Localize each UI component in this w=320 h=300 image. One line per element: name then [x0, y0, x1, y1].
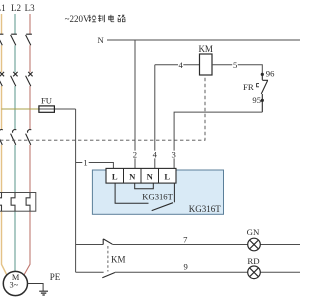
svg-text:~220V: ~220V [65, 14, 90, 24]
ground symbol [39, 291, 48, 295]
wire 4 vertical (terminal N to coil wire) [154, 65, 156, 169]
wire phase L3 segments [24, 14, 30, 275]
svg-text:96: 96 [266, 69, 275, 79]
wire 3 (FR contact to terminal L) [174, 112, 262, 168]
switch QS pole 1 [0, 34, 3, 45]
thermal relay FR heater box [0, 193, 36, 212]
svg-text:RD: RD [247, 256, 259, 266]
FR heater element 2 [11, 193, 15, 212]
wire 5 (coil to FR contact) [212, 65, 262, 73]
svg-text:FR: FR [243, 82, 254, 92]
svg-text:L3: L3 [25, 3, 35, 13]
KM aux NO contact on line 9 [102, 273, 115, 278]
switch QS pole 2 [11, 34, 17, 45]
wire 4 horizontal to KM coil [155, 64, 200, 66]
junction dot 96 [261, 73, 264, 76]
svg-text:3: 3 [172, 150, 176, 160]
svg-text:KM: KM [111, 254, 126, 264]
internal timer contact right lead [173, 183, 175, 202]
internal timer contact blade [152, 203, 173, 211]
svg-text:PE: PE [50, 272, 61, 282]
wire 2 (N bus to terminal N) [134, 40, 136, 168]
contactor coil KM [200, 54, 213, 75]
KM aux mechanical dashed link [107, 246, 109, 272]
wire lamp line 7 [76, 244, 300, 246]
svg-text:FU: FU [41, 95, 53, 105]
svg-text:9: 9 [183, 262, 187, 272]
wire fuse to control bus [39, 108, 76, 110]
wire motor to ground [28, 284, 44, 292]
breaker QF pole 2 [11, 72, 18, 86]
wire phase L1 segments [2, 14, 7, 275]
wire phase L2 segments [14, 14, 16, 271]
fuse FU tap wire from L1 [2, 108, 39, 110]
switch QS pole 3 [26, 34, 32, 45]
wire N bus [107, 39, 300, 41]
svg-text:2: 2 [133, 150, 137, 160]
contactor KM main contact 1 [0, 130, 3, 145]
svg-text:3~: 3~ [10, 281, 19, 290]
svg-text:KG316T: KG316T [189, 204, 221, 214]
svg-text:4: 4 [178, 60, 183, 70]
mechanical link dashed from KM main contacts to coil [0, 76, 205, 141]
FR heater element 3 [26, 193, 30, 212]
svg-text:L: L [164, 172, 170, 182]
motor M circle [3, 271, 27, 295]
contactor KM main contact 2 [11, 130, 17, 145]
junction dot 95 [261, 99, 264, 102]
contactor KM main contact 3 [26, 130, 32, 145]
svg-text:KM: KM [198, 44, 213, 54]
lamp RD [248, 266, 261, 279]
svg-text:95: 95 [252, 95, 261, 105]
time controller KG316T box [92, 170, 223, 214]
internal timer contact wiring [115, 183, 148, 203]
svg-text:N: N [97, 35, 104, 45]
svg-text:1: 1 [83, 158, 87, 168]
lamp GN [248, 238, 261, 251]
FR NC contact [261, 74, 268, 112]
fuse FU body [39, 106, 55, 112]
svg-text:KG316T: KG316T [142, 192, 173, 202]
svg-text:GN: GN [247, 227, 260, 237]
FR thermal actuator mark [257, 84, 259, 87]
svg-text:N: N [147, 172, 154, 182]
svg-text:7: 7 [183, 234, 188, 244]
svg-text:4: 4 [153, 150, 158, 160]
KM aux NC contact on line 7 [103, 239, 112, 245]
svg-text:L2: L2 [11, 3, 21, 13]
wire 1 (bus to terminal L) [76, 163, 114, 169]
CJK title glyphs 控制电路 (drawn) [89, 15, 126, 22]
link between N terminals [135, 183, 154, 189]
breaker QF pole 1 [0, 72, 4, 86]
svg-text:N: N [129, 172, 136, 182]
breaker QF pole 3 [26, 72, 33, 86]
wire lamp line 9 [76, 271, 300, 273]
terminal cell dividers [124, 168, 159, 183]
svg-text:5: 5 [233, 60, 237, 70]
terminal block L N N L [106, 168, 176, 183]
wire left control bus [75, 109, 77, 272]
FR heater element 1 [0, 193, 2, 212]
svg-text:L1: L1 [0, 3, 6, 13]
svg-text:L: L [112, 172, 118, 182]
